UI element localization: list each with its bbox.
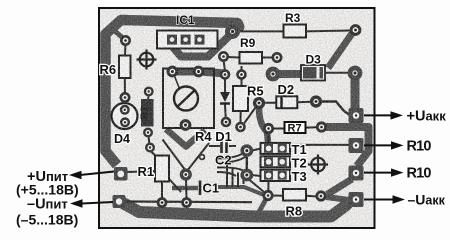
- resistor R9: [240, 52, 263, 64]
- mounting hole crosshair bottom-right: [308, 155, 328, 175]
- node: R5 top pad: [238, 71, 246, 79]
- component bodies: [119, 25, 306, 201]
- wire: -Uakk pad to bottom band: [331, 205, 350, 217]
- node: R4 top-left pad: [168, 67, 177, 76]
- wire: trace from pad 259,103 down around R7 pad to T1: [259, 108, 268, 142]
- wire: U-trace under IC1: [173, 34, 231, 57]
- wire: R7 right pad to corner down to R10 pad2: [326, 127, 369, 166]
- IC1 socket outline: [157, 31, 218, 49]
- svg-text:R1: R1: [138, 164, 155, 179]
- square pad -Uakk: [349, 192, 364, 207]
- square pad +Uakk: [349, 108, 364, 123]
- node: D1 bottom pad: [222, 118, 230, 126]
- wire: top band corner wrap to pad IC out: [238, 23, 240, 27]
- arrow -Uakk: [364, 192, 446, 208]
- svg-text:C1: C1: [203, 181, 220, 196]
- T1 transistor pad block: [261, 143, 291, 181]
- wire: thick band pad273 to D3 left: [278, 70, 302, 78]
- resistor R1: [155, 156, 169, 182]
- node: pad near top corner R6 top: [121, 36, 129, 44]
- mounting hole crosshair top-left: [137, 50, 157, 70]
- node: D1 top pad: [221, 71, 229, 79]
- transistor D4 outline: [112, 103, 138, 129]
- wire: thin V right arm: [187, 143, 209, 171]
- svg-text:R3: R3: [285, 11, 301, 25]
- node: D2 right pad: [312, 97, 321, 106]
- wire: R8 leads: [272, 196, 317, 197]
- arrow +Uakk: [364, 109, 446, 125]
- capacitor C2 plates: [222, 139, 227, 154]
- wire: band between R4 top pads to D1 top pad: [170, 72, 225, 74]
- wire: R8 right pad to -Uakk pad band: [326, 197, 349, 200]
- svg-text:R6: R6: [100, 62, 117, 77]
- svg-text:D2: D2: [278, 82, 295, 97]
- diode D1 symbol: [220, 92, 230, 104]
- svg-text:R10: R10: [407, 166, 432, 182]
- node: R1 bottom rail pad: [158, 199, 166, 207]
- diode D3: [301, 65, 348, 81]
- labels inside board: [100, 11, 322, 219]
- wire: chevron under R4: [166, 129, 205, 147]
- node: D4 pads small star: [200, 155, 205, 160]
- wire: apex pad down to pad 186.5,202: [185, 180, 188, 198]
- node: rail pad 186: [183, 199, 191, 207]
- node: R4 bottom pad: [181, 121, 190, 130]
- board outline: [99, 8, 375, 228]
- board background: [99, 8, 375, 228]
- square pad -Upit: [113, 195, 126, 208]
- arrow R10 top: [364, 139, 431, 155]
- resistor R8: [283, 189, 306, 201]
- node: R2 top pad: [145, 88, 153, 96]
- wire: thick left edge band: [106, 20, 239, 165]
- node: D4 top pad: [121, 106, 129, 114]
- wire: thin V left arm: [163, 140, 186, 171]
- wire: C1 thick lead left: [172, 186, 198, 191]
- wire: fan trace 1: [217, 153, 244, 159]
- node: D4 bottom pad: [121, 119, 129, 127]
- node: pad above R1: [146, 144, 154, 152]
- svg-text:R7: R7: [288, 123, 302, 135]
- node: V apex pad: [181, 170, 190, 179]
- resistor R5: [233, 86, 248, 111]
- node: fan bottom pad: [242, 170, 251, 179]
- wire: pad246 diagonal to R8 left pad: [249, 180, 264, 193]
- wire: R3 left lead: [239, 30, 284, 32]
- wire: bottom long band: [122, 203, 347, 217]
- node: big pad left of R3: [228, 27, 238, 37]
- svg-text:C2: C2: [215, 153, 232, 168]
- square pad R10 bottom: [349, 166, 364, 181]
- label R7 in box: [285, 122, 306, 135]
- wire: diagonal across R1: [156, 164, 182, 192]
- svg-text:–Uпит: –Uпит: [27, 197, 68, 213]
- node: R9 left pad: [219, 52, 227, 60]
- wire: Z band pad2 to pad3: [327, 179, 352, 195]
- wire: R9 left pad down to D1 top pad: [224, 62, 225, 70]
- wire: fan trace 2: [217, 157, 246, 164]
- wire: R3 right lead: [306, 30, 350, 33]
- wire: R5 top lead: [241, 66, 242, 123]
- svg-text:(–5...18B): (–5...18B): [16, 212, 78, 228]
- node: R6 bottom pad: [121, 93, 129, 101]
- node: R4 top-right pad: [194, 67, 203, 76]
- thin wires: [125, 31, 350, 203]
- wire: T1 right pad to R10 pad1: [287, 145, 350, 147]
- svg-text:R9: R9: [240, 36, 256, 50]
- diode D2 cathode bar: [280, 96, 283, 108]
- ring pads (large copper): [121, 26, 360, 207]
- wire: R4 wiper diagonal: [174, 75, 180, 89]
- node: R9 right pad: [273, 53, 281, 61]
- wire: D1 vertical leads: [224, 79, 227, 119]
- wire: diagonal D2 left pad to R5 bottom pad: [244, 108, 256, 124]
- wire: fan verticals: [227, 165, 244, 188]
- wire: R6 leads: [124, 45, 127, 93]
- resistor R3: [284, 25, 307, 38]
- square pad +Upit: [114, 167, 128, 181]
- wire: bottom thin rail y=202.5: [126, 200, 252, 203]
- node: R5 bottom pad: [237, 123, 245, 131]
- diode D2: [276, 96, 297, 108]
- svg-text:R8: R8: [286, 204, 303, 219]
- node: R7 right pad: [317, 123, 325, 131]
- node: pad right of R3: [351, 26, 360, 35]
- wire: fan trace 4: [217, 172, 236, 176]
- wire: T3 left pad to R8 left pad: [267, 180, 269, 193]
- trimmer R4 box: [163, 69, 214, 129]
- wire: pad column to T pads: [252, 149, 261, 177]
- node: pad right of D3: [350, 68, 360, 78]
- wire: fan trace 3: [217, 167, 243, 170]
- trimmer R4 rotor: circle with slash: [174, 87, 198, 111]
- svg-text:D4: D4: [114, 132, 130, 146]
- resistor R6: [119, 56, 131, 79]
- node: R2 bottom pad: [144, 129, 152, 137]
- svg-text:R10: R10: [407, 139, 432, 155]
- svg-text:R5: R5: [247, 84, 264, 99]
- arrow -Upit: [16, 197, 113, 228]
- wire: pads column vertical connector: [246, 157, 248, 169]
- wire: vertical band pad355,73 down to +Uakk pad: [351, 79, 360, 112]
- capacitor C1 plates: [199, 181, 202, 196]
- square pad R10 top: [349, 138, 364, 153]
- svg-text:T3: T3: [292, 169, 307, 184]
- wire: +Upit pad to R1 left: [127, 171, 155, 172]
- wire: R7 left pad down to T1 left pad: [268, 134, 270, 148]
- resistor R2 (dark box, vertical label): [138, 99, 153, 127]
- svg-text:–Uакк: –Uакк: [408, 192, 446, 208]
- svg-text:IC1: IC1: [176, 13, 195, 27]
- wire: R2 bottom lead to pad: [148, 130, 149, 144]
- arrow R10 bottom: [364, 166, 431, 182]
- node: fan top pad: [242, 146, 251, 155]
- wire: R1 bottom lead: [161, 182, 163, 199]
- wire: zigzag D2 pad to +Uakk pad: [321, 102, 350, 115]
- IC1 socket pads: [167, 35, 205, 45]
- wire: C2 leads: [209, 145, 236, 147]
- arrow +Upit: [16, 169, 114, 198]
- wire: C1 thick lead right into R8 left pad: [218, 187, 264, 195]
- wire: R9 leads: [227, 56, 273, 59]
- svg-text:D3: D3: [306, 53, 322, 67]
- wire: D2 leads: [264, 102, 312, 103]
- wire: stub R8 left pad to bottom band: [259, 199, 266, 212]
- node: R8 left pad: [264, 191, 272, 199]
- svg-text:+Uакк: +Uакк: [407, 109, 447, 125]
- wire: stub from corner to pad near R6: [113, 30, 124, 40]
- node: D2 left pad: [255, 99, 264, 108]
- svg-text:R4 D1: R4 D1: [195, 129, 232, 144]
- wire: R2 top lead: [147, 96, 150, 100]
- svg-text:(+5...18B): (+5...18B): [16, 182, 79, 198]
- wire: R7 leads: [273, 127, 318, 128]
- grain overlay on board: [99, 8, 375, 228]
- wire: diagonal from pad (356,30) to D3 right: [328, 34, 352, 69]
- wire: pad150 to R1 top: [151, 151, 159, 158]
- node: R8 right pad: [317, 192, 325, 200]
- node: R7 left pad: [264, 124, 272, 132]
- node: pad left of D3: [268, 69, 278, 79]
